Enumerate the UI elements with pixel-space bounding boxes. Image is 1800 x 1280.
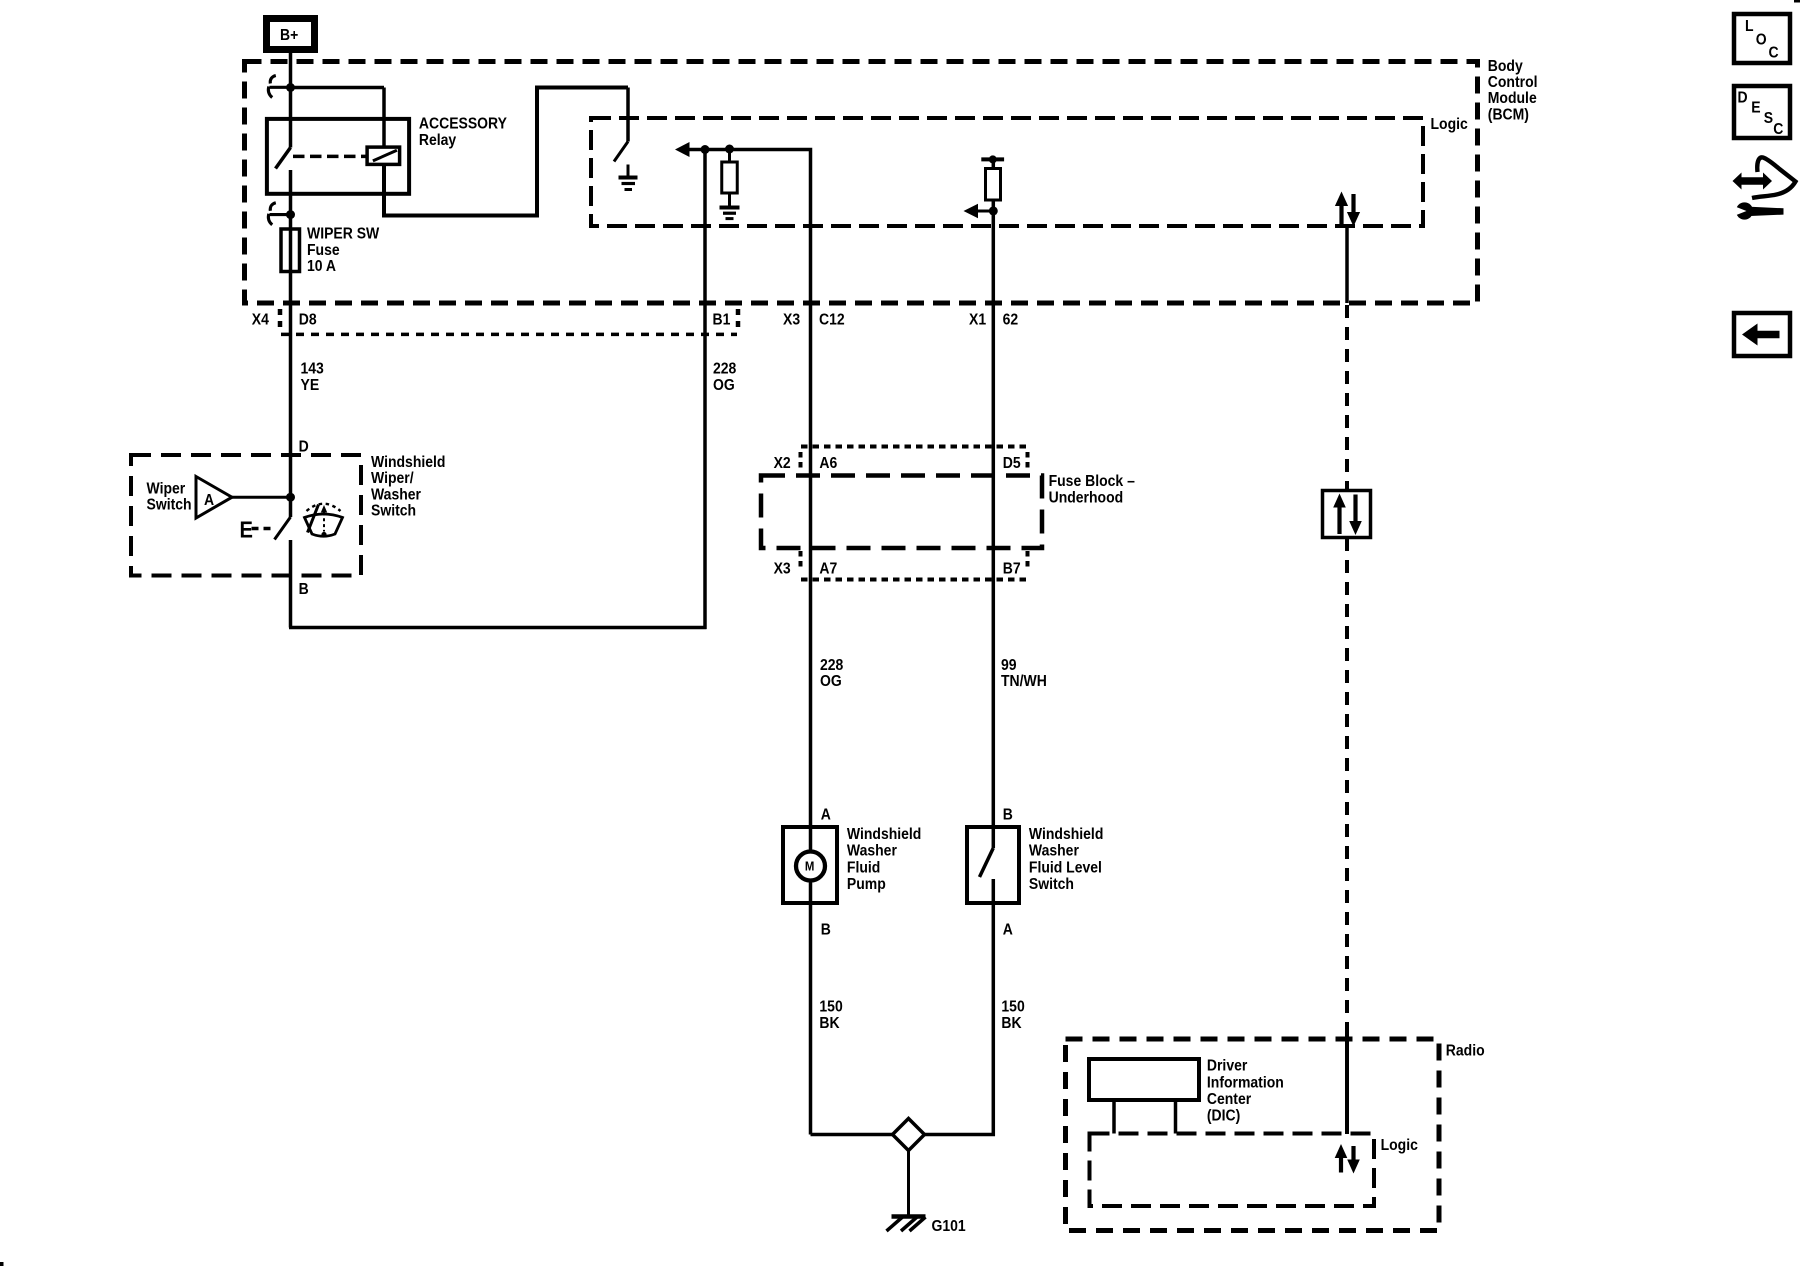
svg-text:Radio: Radio [1446,1042,1485,1060]
svg-text:X3: X3 [774,560,791,578]
svg-text:X4: X4 [252,311,270,329]
svg-text:150: 150 [819,998,842,1016]
svg-text:Windshield: Windshield [847,825,921,843]
svg-text:Logic: Logic [1381,1136,1418,1154]
svg-text:E: E [1751,98,1760,116]
svg-text:B1: B1 [713,311,731,329]
svg-text:150: 150 [1001,998,1024,1016]
svg-text:M: M [805,859,814,874]
svg-text:D5: D5 [1003,454,1021,472]
svg-text:A: A [1003,921,1013,939]
svg-text:B: B [299,580,309,598]
svg-text:Switch: Switch [1029,875,1074,893]
svg-text:C12: C12 [819,311,845,329]
svg-text:Fluid: Fluid [847,858,880,876]
svg-text:Pump: Pump [847,875,886,893]
svg-text:Information: Information [1207,1073,1284,1091]
svg-text:Logic: Logic [1431,115,1468,133]
svg-text:B: B [1003,806,1013,824]
svg-text:10 A: 10 A [307,257,336,275]
svg-text:BK: BK [819,1014,839,1032]
svg-text:TN/WH: TN/WH [1001,672,1047,690]
svg-text:Underhood: Underhood [1049,488,1124,506]
svg-text:YE: YE [301,376,320,394]
svg-text:X3: X3 [783,311,800,329]
svg-text:Fluid Level: Fluid Level [1029,858,1102,876]
svg-text:Washer: Washer [847,842,897,860]
svg-text:OG: OG [713,376,735,394]
svg-text:D: D [1737,89,1747,107]
svg-text:C: C [1768,43,1778,61]
svg-text:Windshield: Windshield [1029,825,1103,843]
svg-text:C: C [1773,120,1783,138]
svg-text:L: L [1745,17,1754,35]
svg-text:Switch: Switch [147,496,192,514]
svg-text:G101: G101 [931,1217,965,1235]
svg-text:228: 228 [713,360,736,378]
svg-text:OG: OG [820,672,842,690]
svg-text:D: D [299,437,309,455]
svg-text:228: 228 [820,656,843,674]
svg-text:A6: A6 [819,454,837,472]
svg-text:E: E [239,516,252,543]
svg-text:A: A [204,491,214,509]
svg-text:(DIC): (DIC) [1207,1107,1240,1125]
svg-text:62: 62 [1003,311,1019,329]
svg-text:Washer: Washer [1029,842,1079,860]
svg-text:B+: B+ [280,26,298,44]
svg-text:O: O [1756,31,1767,49]
svg-text:99: 99 [1001,656,1017,674]
svg-text:(BCM): (BCM) [1488,106,1529,124]
svg-text:A: A [821,806,831,824]
svg-text:BK: BK [1001,1014,1021,1032]
svg-text:Relay: Relay [419,131,457,149]
svg-text:143: 143 [301,360,324,378]
svg-text:Switch: Switch [371,502,416,520]
svg-text:Driver: Driver [1207,1057,1248,1075]
svg-text:D8: D8 [299,311,317,329]
svg-text:B: B [821,921,831,939]
svg-text:X2: X2 [774,454,791,472]
svg-text:B7: B7 [1003,560,1021,578]
svg-text:A7: A7 [819,560,837,578]
svg-text:S: S [1764,109,1773,127]
svg-text:Center: Center [1207,1090,1251,1108]
svg-text:X1: X1 [969,311,986,329]
